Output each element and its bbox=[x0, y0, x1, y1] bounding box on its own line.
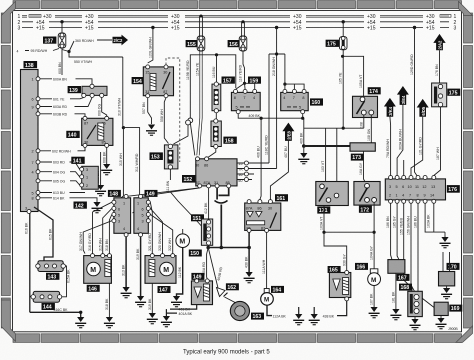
junction +54/175 bbox=[342, 20, 345, 23]
wire 430 BK relay161 to ground bbox=[248, 232, 250, 272]
wires 148 to motor 146 bbox=[93, 202, 112, 253]
wire 313 BK 148 to ground bbox=[125, 237, 127, 287]
wire 412 BK 152 pin87A to connector 151 bbox=[208, 188, 210, 219]
wire 152 pin50 stub bbox=[237, 179, 252, 181]
arrow 3/E4 up bbox=[397, 86, 409, 105]
wire 315 WH bbox=[117, 126, 123, 201]
wire 123L GN/WH from +15 bbox=[148, 28, 153, 64]
diode 162 bbox=[217, 288, 228, 297]
pin 4 / wire 604 OG to 142 pin 1 bbox=[36, 170, 40, 174]
wire 600 OG from 139 to relay 140 pin 86 bbox=[102, 98, 107, 120]
wire 616C BK to ground bbox=[30, 312, 81, 318]
pin 3 bottom of 138 bbox=[27, 210, 31, 214]
node 116A bbox=[215, 53, 218, 56]
ground for 614 BK bbox=[92, 202, 103, 213]
arrow 2/A2 up bbox=[433, 34, 445, 50]
wire 155 YE/BU 176 to 168 bbox=[404, 203, 412, 291]
wire 600 BK relay 140 pin85 to ground bbox=[106, 147, 108, 164]
fuse 137 bbox=[58, 33, 66, 48]
junction +54/156 bbox=[241, 20, 244, 23]
wire relay 140 pin30 stub bbox=[84, 147, 86, 150]
wire 115A YE double below fuse155 to 152 bbox=[197, 51, 202, 155]
wire 603B RD to relay 140 pin 87 bbox=[36, 112, 40, 116]
wire 615A BK from 143 to 144 bbox=[62, 266, 67, 297]
wire link 172/171 bbox=[324, 231, 374, 233]
dashed mechanical link from 154 pin30 bbox=[166, 58, 180, 162]
wire 185 GY 176 to 167 bbox=[397, 203, 399, 259]
junction +15/123L bbox=[151, 26, 154, 29]
wire thick link 151 to relay161 pin85 net bbox=[208, 247, 249, 249]
wire 152 pin16 stub bbox=[237, 173, 254, 175]
wire 118C YE/RD to 152 pin15 bbox=[269, 54, 285, 163]
branch wire to switch 174 bbox=[343, 56, 364, 96]
wire 319 BK 149 to ground bbox=[140, 237, 142, 296]
wire 407 BU arrow to relay 161 bbox=[270, 140, 288, 199]
wire 409 BK down to ground junction bbox=[303, 118, 305, 146]
junction +30/155 bbox=[200, 15, 203, 18]
node feed 160 bbox=[283, 83, 286, 86]
label 137 bbox=[43, 37, 56, 45]
paper noise overlay bbox=[0, 0, 1, 1]
ground 616C bbox=[75, 317, 86, 328]
ground 409 BK bbox=[303, 146, 305, 153]
wire 16A GY from 173 to switch 172 bbox=[364, 151, 366, 183]
arrow 2/C2 bbox=[113, 35, 129, 46]
wire 360 RD/WH to arrow 2/C2 bbox=[69, 40, 112, 52]
wire 403B RD via diode 162 to horn 163 bbox=[208, 248, 240, 307]
ground under relay 154 bbox=[146, 125, 157, 136]
wire 108 GN to block 173 bbox=[370, 115, 372, 144]
wire 152 pin87 branch to connector 148 bbox=[126, 188, 199, 197]
wire joining fuse 155/156 outputs bbox=[201, 51, 243, 88]
wire 615 BK to 143 bbox=[34, 207, 53, 261]
pin 6 / wire 601 YE bbox=[36, 97, 40, 101]
pin 2 / wire 602 RD/WH bbox=[36, 149, 40, 153]
pin 9 / wire 603A RD bbox=[36, 105, 40, 109]
ground under 169 bbox=[440, 316, 442, 319]
wire 111A WH relay161 to motor 164 bbox=[266, 232, 268, 288]
wire 550 VT/WH bbox=[69, 52, 123, 58]
junction +54/137 bbox=[60, 20, 63, 23]
wire 79A RD/WH to 176 pin3 bbox=[389, 117, 392, 176]
junction +15/218 bbox=[275, 26, 278, 29]
wire 152 pinTK to 218 bbox=[237, 168, 277, 170]
wire 152 pin87 to connector 149 bbox=[141, 188, 200, 197]
pin 5 / wire 613 BU bbox=[36, 191, 40, 195]
node below 175 bbox=[341, 55, 344, 58]
wire 152 pin15 to 118C bbox=[237, 162, 269, 164]
connector lug symbol bbox=[215, 201, 228, 204]
ground pair G7 bbox=[298, 307, 300, 314]
wire 95 RD/WH (row 4) bbox=[25, 49, 59, 51]
wire 406 BU to relay 161 bbox=[260, 118, 261, 199]
wire 438 BK from alarm 165 bbox=[337, 301, 347, 316]
wire node 315 bbox=[122, 126, 125, 129]
wire 187 WH connector 178 to 176 pin13 bbox=[434, 107, 441, 176]
wires into 170 bbox=[443, 252, 450, 272]
corner pieces bbox=[1, 1, 15, 43]
wire 930 GY from 171 to 165 bbox=[324, 232, 347, 270]
wires 149 to motor 147 bbox=[150, 202, 152, 253]
ground under 168 bbox=[414, 317, 416, 319]
junction row y128 bbox=[304, 127, 364, 129]
junction +15/129D bbox=[413, 26, 416, 29]
right bar segments 1-8 bbox=[464, 13, 473, 43]
wire thick to ground net bbox=[220, 205, 222, 248]
wire 107 BK motor166 ground bbox=[373, 286, 375, 308]
wire 319 BK motor147 to ground bbox=[151, 283, 153, 313]
wire to 176 pin6 bbox=[403, 160, 405, 176]
wire bus +15 bbox=[22, 27, 449, 29]
wire 559 BK pin31 to ground bbox=[148, 98, 152, 124]
wire 186 BU 176 to 169 bbox=[418, 203, 434, 307]
wire 186 BN 176 to 167 bbox=[391, 203, 392, 259]
wire 129D GN/RD from +15 bbox=[415, 28, 419, 178]
wire 111 BN from 153 to 151 bbox=[170, 169, 201, 226]
pin 1 / wire 600A BN bbox=[36, 77, 40, 81]
node below fuse 137 bbox=[67, 50, 70, 53]
wires fan to 159 pins bbox=[236, 83, 255, 89]
main wire 175 down to junction row bbox=[342, 49, 344, 128]
wire 311 WH/RD bbox=[123, 128, 139, 213]
wire 600 BN below fuse 137 bbox=[61, 48, 63, 75]
top bar segments A-M bbox=[13, 1, 40, 9]
node striped ends of +30 bbox=[29, 15, 451, 18]
wire 218 GN/WH from +15 to 152 pinTK bbox=[276, 28, 278, 169]
wire 103A BK to ground bbox=[425, 203, 445, 232]
ground pair G8 bbox=[313, 307, 315, 314]
node feed 159 bbox=[243, 82, 246, 85]
ground under 170 bbox=[446, 286, 448, 288]
arrow 2/E8 up bbox=[282, 123, 294, 141]
wire 616 BK from 138 pin3 down to 144 bbox=[30, 214, 33, 313]
wire 118 YE/RD fuse156 to relay 159 bbox=[243, 54, 245, 83]
wire 112A BK bbox=[267, 305, 272, 315]
wire 303A BU/WH to 176 pin5 bbox=[397, 105, 403, 176]
bottom bar segments A-M bbox=[13, 334, 40, 343]
wire 108 BU bbox=[363, 115, 365, 128]
wires fan to 160 pins bbox=[285, 54, 304, 89]
wire 103A VT below 171 bbox=[323, 206, 325, 233]
wire 605 OG to 142 pin 2 bbox=[36, 179, 40, 183]
wire 400A RD to alarm 149b bbox=[207, 248, 209, 280]
wire 2nd to 171 bbox=[336, 128, 338, 181]
ground under relay 140 bbox=[101, 164, 112, 175]
wire 310 VT/WH down to node 315 bbox=[122, 57, 124, 126]
wire 152 pins 31/85 joined to suppressor bbox=[217, 188, 229, 200]
wire 157 to 158 bbox=[215, 113, 217, 119]
wire 181 BK 167 to ground bbox=[395, 273, 397, 309]
wire 103 VT to 171 bbox=[325, 128, 327, 181]
wire 121 GY/RD to 176 pin7 bbox=[411, 117, 423, 176]
wire 600 BN vertical to ground bbox=[100, 152, 102, 185]
pin 7 / wire 603 RD to 142 pin 3 bbox=[36, 160, 40, 164]
open terminal circle above 153 bbox=[186, 120, 191, 125]
wire bus +30 (double) bbox=[22, 14, 423, 16]
left bar segments 1-8 bbox=[1, 13, 10, 43]
wire 158 to 152 bbox=[208, 149, 216, 158]
ground 600 BN bbox=[95, 185, 106, 196]
wire 318 BK motor146 to ground bbox=[108, 283, 110, 317]
node below 151 bbox=[208, 245, 210, 247]
wire 119B YE/RD with open terminal bbox=[190, 55, 201, 118]
wire 104A GY 172 to motor 166 bbox=[373, 202, 375, 268]
wire 116A BU to connector 157 bbox=[216, 55, 218, 82]
wire 156 GN/WH 176 to 168 bbox=[411, 203, 415, 291]
wire 176 BN arrow to connector 178 bbox=[439, 50, 441, 83]
wire +54 to fuse 137 bbox=[61, 22, 63, 33]
arrow 3/K4 up bbox=[384, 98, 396, 117]
arrow 6/D5 up bbox=[417, 99, 429, 117]
wire 558 WH/RD pin87 to 153 bbox=[164, 98, 168, 144]
wire bus +54 bbox=[22, 21, 449, 23]
wire 112 BK motor150 to ground bbox=[177, 248, 183, 297]
pin 8 / wire 614 BK bbox=[36, 196, 40, 200]
wire 401 BK/401A BK to ground bbox=[166, 305, 196, 316]
